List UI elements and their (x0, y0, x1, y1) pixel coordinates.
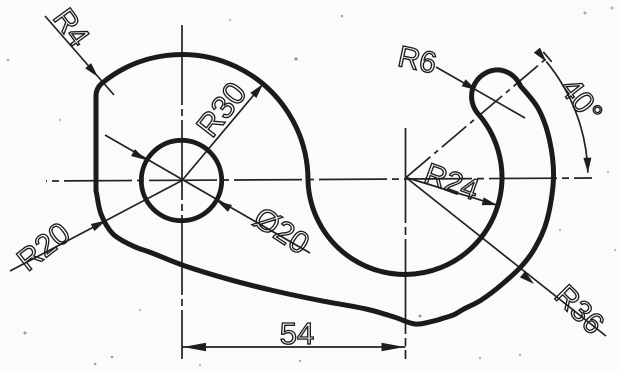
O20 diameter leader line (105, 135, 310, 253)
R36 leader line (406, 178, 606, 337)
O20 lower arrow (217, 201, 232, 212)
vertical centerline through C2 (405, 128, 407, 359)
54 left arrow (183, 343, 206, 351)
R24 arrow (482, 197, 498, 205)
R4 leader line (45, 16, 114, 95)
svg-text:54: 54 (280, 316, 314, 351)
R24 leader line (406, 178, 497, 206)
40 deg dimension arc (546, 62, 588, 173)
54 dimension line (182, 346, 406, 348)
40 deg arc upper arrow (534, 48, 547, 62)
horizontal centerline (46, 178, 592, 181)
hole circle dia 20 (141, 140, 221, 220)
O20 upper arrow (131, 149, 146, 160)
R6 arrow (462, 79, 477, 90)
R30 leader line (182, 84, 263, 181)
R6 leader line (436, 67, 525, 118)
R20 arrow (91, 221, 106, 232)
hook plate outline (96, 55, 554, 325)
R36 arrow (520, 271, 534, 284)
40 deg inclined centerline through hook tip (406, 57, 548, 177)
R4 arrow (85, 63, 98, 77)
R30 arrow (250, 84, 263, 98)
R20 leader line (10, 181, 182, 272)
40 deg arc lower arrow (583, 158, 591, 173)
vertical centerline through C1 (181, 21, 183, 359)
end tick of 40 deg line (543, 52, 551, 62)
54 right arrow (382, 343, 405, 351)
